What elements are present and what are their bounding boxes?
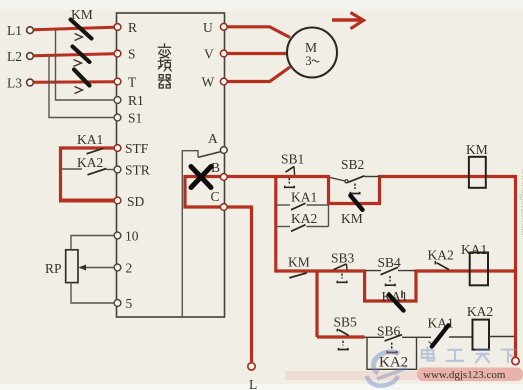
svg-text:R: R [128,20,137,35]
wire SB2 detour (red) [329,175,380,204]
svg-text:KA2: KA2 [428,248,454,263]
watermark url band [285,368,523,382]
potentiometer RP [45,236,114,304]
svg-text:KA1: KA1 [428,316,454,331]
svg-text:L2: L2 [7,49,22,64]
svg-text:SB5: SB5 [334,315,358,330]
svg-text:W: W [202,75,215,90]
terminal R1 [114,93,144,108]
wire V to motor [227,52,287,55]
svg-text:SB2: SB2 [341,157,364,172]
svg-text:C: C [211,189,220,204]
wire SD (red) [59,199,114,203]
wire rung2 right (red) [416,269,516,272]
terminal 5 [114,296,132,311]
wire C to L (red) [250,206,253,363]
wire B down to C (red) [185,175,252,207]
wire rung2 to rung3 feed (red) [315,271,318,337]
relay contact KA2 (self-hold, bypass SB6) [378,355,409,371]
terminal 10 [114,229,139,244]
terminal A [208,131,227,153]
terminal V [204,47,227,62]
svg-text:STR: STR [125,163,150,178]
svg-text:KM: KM [288,255,310,270]
inverter box U1 变频器 [117,13,225,317]
svg-text:2: 2 [126,261,133,276]
svg-text:RP: RP [45,261,62,276]
right bus (red) [514,175,517,358]
terminal STR [114,163,150,178]
svg-text:SD: SD [127,194,145,209]
svg-text:KA2: KA2 [291,211,317,226]
svg-text:L1: L1 [7,23,22,38]
motor M 3~ [287,28,337,78]
svg-text:KM: KM [466,142,488,157]
relay contact KA1 (closed, bypass SB4) [382,289,408,311]
wire vertical STF bus to SD (red) [59,147,62,201]
wire rung2 (red) from bus [276,269,365,272]
relay contact KA1 (STF) [77,132,104,154]
inverter relay switch at A [182,151,221,317]
svg-text:KA1: KA1 [77,132,103,147]
wire B rung (red) [185,175,329,178]
svg-text:R1: R1 [128,93,144,108]
svg-text:V: V [204,47,214,62]
SB1 bypass: relay contact KA2 [276,211,329,231]
svg-text:www.dgjs123.com: www.dgjs123.com [423,369,506,381]
terminal U [203,20,227,35]
terminal STF [114,141,149,156]
coil KA2 [467,304,493,349]
pushbutton SB3 (NC stop) [331,251,355,284]
terminal C [211,189,220,204]
svg-text:KA2: KA2 [77,155,103,170]
svg-text:3: 3 [305,54,311,68]
svg-text:KA1: KA1 [461,242,487,257]
watermark 电工天下 [422,347,516,362]
wire L3 to T [34,80,115,84]
svg-text:5: 5 [126,296,133,311]
coil KA1 [461,242,488,285]
wire L1 to R [34,27,115,30]
terminal W [202,75,228,90]
terminal circle C [220,204,227,211]
svg-text:U: U [203,20,213,35]
svg-text:SB1: SB1 [281,152,304,167]
wire rung3 thin to KA2 coil [449,336,473,338]
svg-text:SB3: SB3 [331,251,355,266]
svg-text:M: M [305,40,317,55]
wire L2 to S [34,54,115,56]
svg-text:KA1: KA1 [291,190,317,205]
left bus down from rung1 (red) [274,177,277,273]
node L1 [7,23,33,38]
wire SB4 detour (red) [365,270,416,302]
terminal 2 [114,261,132,276]
terminal B [211,160,220,175]
closed-contact mark X at B [191,167,211,188]
rotation arrow [332,13,364,29]
terminal N (right bus end) [512,357,519,364]
pushbutton SB6 (NO) [377,323,402,353]
wire bypass right vertical [328,204,330,227]
wire KA2 coil to right bus [489,336,514,338]
svg-text:STF: STF [125,141,149,156]
wire W to motor [227,67,290,82]
contactor KM aux contact (rung2) [288,255,310,278]
contactor KM main contacts [71,7,93,94]
svg-text:S1: S1 [128,111,142,126]
terminal S [114,47,135,62]
SB1 bypass: relay contact KA1 [276,190,329,210]
relay contact KA2 (STR) [62,155,114,175]
svg-text:L3: L3 [7,76,22,91]
svg-text:A: A [208,131,218,146]
contactor KM aux contact (self-hold, closed) [341,195,363,226]
wire rung1 to KM coil (red) [380,175,516,178]
SB6 bypass box wires [367,337,417,369]
node L3 [7,76,33,91]
svg-text:KM: KM [71,7,93,22]
terminal circle B [220,174,227,181]
svg-text:10: 10 [125,229,139,244]
terminal L [248,363,257,390]
terminal SD [114,194,144,209]
pushbutton SB1 (NC) [281,152,304,189]
wire U to motor [227,27,290,38]
wire rung3 thin to KA1 contact [402,336,431,338]
relay contact KA1 (closed, rung3) [428,316,454,347]
terminal R [114,20,137,35]
pushbutton SB2 (NO start) [330,157,380,195]
svg-text:KM: KM [341,211,363,226]
pushbutton SB5 (NC stop) [334,315,358,351]
watermark logo swirl [367,352,407,386]
terminal T [114,75,137,90]
wire rung3 thin continuation [365,336,385,338]
coil KM [466,142,488,188]
svg-text:S: S [128,47,136,62]
svg-text:L: L [249,377,257,390]
wire rung3 (red) [317,335,365,338]
node L2 [7,49,33,64]
svg-text:www.dgjs123.com: www.dgjs123.com [520,168,523,235]
svg-text:T: T [128,75,137,90]
wire L1 tap to R1 [56,30,115,101]
wire KA1 to STF (red) [59,146,114,149]
svg-text:KA2: KA2 [467,304,493,319]
terminal S1 [114,111,142,126]
pushbutton SB4 (NO) [365,255,416,286]
wire L2 tap to S1 [49,56,114,118]
relay contact KA2 (NC, rung2) [428,248,454,270]
